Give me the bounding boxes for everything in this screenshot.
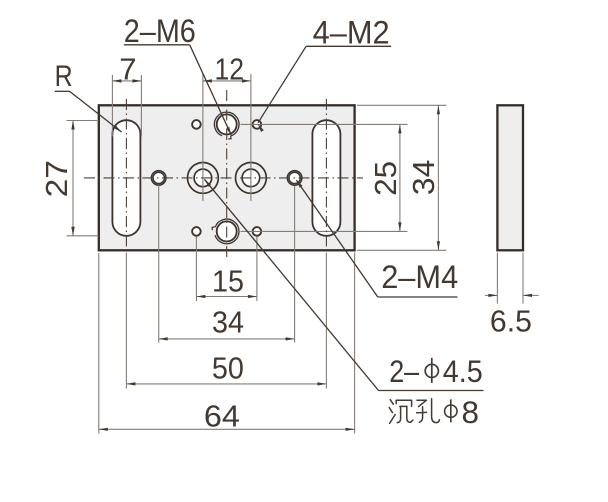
dim 34 bottom (159, 338, 295, 340)
svg-text:R: R (55, 60, 73, 93)
extension lines dim 6.5 (496, 253, 498, 304)
hole M2 top-right (253, 120, 262, 129)
dim 27 (72, 121, 74, 236)
extension lines dim 64 (98, 253, 100, 434)
hole M2 bottom-left (192, 227, 201, 236)
svg-text:27: 27 (39, 160, 74, 197)
hole M4 left (151, 171, 166, 186)
extension lines dim 34 right (357, 104, 447, 106)
dim 12 (203, 80, 251, 82)
centerline slot right (325, 99, 327, 250)
svg-text:4–M2: 4–M2 (313, 15, 390, 51)
svg-text:8: 8 (462, 394, 480, 430)
hole M6 bottom (217, 221, 237, 241)
svg-text:15: 15 (212, 263, 244, 298)
slot left (112, 120, 140, 236)
dim 7 (112, 80, 141, 82)
dim 15 (196, 296, 257, 298)
hole M4 right (287, 171, 302, 186)
plate front view (99, 105, 355, 250)
extension lines dim 34 bottom (158, 185, 160, 343)
svg-text:2–M4: 2–M4 (381, 259, 458, 295)
label chinese counterbore phi8 (389, 399, 439, 424)
svg-text:2–: 2– (389, 353, 419, 389)
svg-text:50: 50 (212, 351, 244, 386)
extension lines dim 50 (125, 253, 127, 389)
extension lines dim 25 (241, 123, 408, 125)
extension lines dim 7 (111, 75, 113, 137)
svg-text:34: 34 (406, 160, 441, 195)
svg-text:64: 64 (204, 398, 240, 433)
svg-text:25: 25 (368, 161, 403, 196)
extension lines dim 12 (202, 74, 204, 201)
svg-text:4.5: 4.5 (443, 353, 483, 389)
extension lines dim 15 (195, 237, 197, 302)
hole M2 bottom-right (253, 227, 262, 236)
centerline slot left (125, 99, 127, 250)
plate side view (497, 105, 523, 250)
dim 50 (126, 383, 326, 385)
hole M2 top-left (192, 120, 201, 129)
extension lines dim 27 (67, 120, 99, 122)
counterbore right (236, 163, 267, 194)
dim 34 right (437, 105, 439, 250)
svg-text:12: 12 (214, 51, 244, 86)
slot right (312, 120, 340, 236)
dim 64 (99, 428, 355, 430)
dim 25 (399, 124, 401, 231)
dim 6.5 (485, 294, 498, 296)
svg-text:2–M6: 2–M6 (124, 13, 196, 49)
hole M6 top (217, 114, 237, 134)
svg-text:6.5: 6.5 (490, 304, 532, 339)
centerline horizontal (84, 177, 363, 179)
svg-text:34: 34 (212, 304, 244, 339)
centerline vertical M6 (226, 90, 228, 258)
svg-text:7: 7 (119, 51, 136, 86)
counterbore left (188, 163, 219, 194)
